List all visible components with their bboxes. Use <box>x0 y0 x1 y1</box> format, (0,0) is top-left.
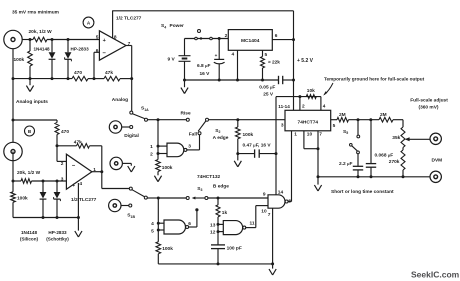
svg-text:7: 7 <box>128 41 131 47</box>
svg-text:1: 1 <box>150 144 153 150</box>
svg-text:2M: 2M <box>339 112 346 118</box>
svg-text:≈ 22k: ≈ 22k <box>268 60 280 66</box>
svg-text:Digital: Digital <box>124 133 139 139</box>
svg-text:2: 2 <box>302 104 305 110</box>
svg-text:1N4148: 1N4148 <box>34 47 51 52</box>
svg-text:3: 3 <box>188 143 191 149</box>
svg-text:7: 7 <box>319 131 322 137</box>
svg-text:2: 2 <box>61 161 64 167</box>
svg-text:(360 mV): (360 mV) <box>419 104 439 110</box>
svg-text:4: 4 <box>79 181 82 187</box>
svg-text:5: 5 <box>333 123 336 129</box>
svg-text:MC1404: MC1404 <box>241 38 260 44</box>
svg-text:HP-2833: HP-2833 <box>71 47 90 52</box>
svg-text:HP-2833: HP-2833 <box>48 230 67 235</box>
svg-text:5: 5 <box>151 229 154 235</box>
svg-text:0.05 μF: 0.05 μF <box>259 85 275 91</box>
svg-text:Rise: Rise <box>181 111 191 117</box>
svg-text:9 V: 9 V <box>168 57 176 63</box>
svg-text:2M: 2M <box>380 112 387 118</box>
svg-text:8: 8 <box>288 199 291 205</box>
svg-text:100 pF: 100 pF <box>227 246 242 252</box>
svg-text:7: 7 <box>268 212 271 218</box>
svg-text:6.8 μF: 6.8 μF <box>197 63 210 69</box>
svg-text:47k: 47k <box>74 140 82 146</box>
svg-text:Analog inputs: Analog inputs <box>16 99 48 105</box>
svg-text:4: 4 <box>232 52 235 58</box>
svg-text:Analog: Analog <box>112 97 128 103</box>
svg-text:35k: 35k <box>392 135 400 141</box>
svg-text:1k: 1k <box>222 210 228 216</box>
svg-text:9: 9 <box>263 192 266 198</box>
svg-text:74HCT132: 74HCT132 <box>197 174 221 180</box>
svg-text:(Schottky): (Schottky) <box>46 237 69 242</box>
svg-text:4: 4 <box>151 221 154 227</box>
svg-text:470: 470 <box>74 70 82 76</box>
svg-text:0.47 μF, 16 V: 0.47 μF, 16 V <box>243 142 272 148</box>
svg-text:Temporarily ground here for fu: Temporarily ground here for full-scale o… <box>324 77 425 82</box>
svg-text:35 mV rms minimum: 35 mV rms minimum <box>12 10 59 16</box>
svg-text:14: 14 <box>278 190 284 196</box>
svg-text:6: 6 <box>188 221 191 227</box>
svg-text:5: 5 <box>265 52 268 58</box>
svg-text:20k, 1/2 W: 20k, 1/2 W <box>29 29 53 35</box>
svg-text:2.2 μF: 2.2 μF <box>339 161 352 167</box>
svg-text:A edge: A edge <box>213 135 229 141</box>
svg-text:470: 470 <box>61 129 69 135</box>
svg-text:1/2 TLC277: 1/2 TLC277 <box>116 16 142 22</box>
svg-text:+: + <box>72 183 75 189</box>
svg-text:1N4148: 1N4148 <box>21 230 38 235</box>
svg-text:(Silicon): (Silicon) <box>20 237 39 242</box>
svg-text:6: 6 <box>96 48 99 54</box>
svg-text:2: 2 <box>150 152 153 158</box>
svg-text:B edge: B edge <box>213 183 229 189</box>
svg-text:SeekIC.com: SeekIC.com <box>411 270 460 280</box>
svg-text:100k: 100k <box>14 57 25 63</box>
svg-text:10k: 10k <box>307 88 315 94</box>
svg-text:10: 10 <box>307 131 313 137</box>
svg-text:1/2 TLC277: 1/2 TLC277 <box>71 197 97 203</box>
svg-text:16 V: 16 V <box>200 71 211 77</box>
svg-text:2: 2 <box>225 33 228 39</box>
svg-text:12: 12 <box>210 230 216 236</box>
svg-text:25 V: 25 V <box>263 92 274 98</box>
svg-text:Short or long time constant: Short or long time constant <box>331 189 394 195</box>
svg-text:5: 5 <box>96 34 99 40</box>
svg-text:6: 6 <box>275 33 278 39</box>
svg-text:4: 4 <box>323 104 326 110</box>
svg-text:100k: 100k <box>17 195 28 201</box>
svg-text:0.068 μF: 0.068 μF <box>375 152 394 158</box>
svg-text:+ 5.2 V: + 5.2 V <box>297 58 314 64</box>
svg-text:1: 1 <box>294 131 297 137</box>
svg-text:74HCT74: 74HCT74 <box>298 119 319 125</box>
svg-text:Full-scale adjust: Full-scale adjust <box>410 98 448 104</box>
svg-text:10: 10 <box>261 208 267 214</box>
svg-text:100k: 100k <box>162 165 173 171</box>
svg-text:13: 13 <box>210 222 216 228</box>
svg-text:8: 8 <box>114 34 117 40</box>
svg-text:3: 3 <box>61 176 64 182</box>
svg-text:Power: Power <box>170 23 185 29</box>
svg-text:47k: 47k <box>105 70 113 76</box>
svg-text:Fall: Fall <box>189 131 197 137</box>
svg-text:DVM: DVM <box>432 157 443 163</box>
svg-text:100k: 100k <box>243 132 254 138</box>
svg-text:+: + <box>103 38 106 44</box>
svg-text:+: + <box>215 53 218 58</box>
svg-text:20k, 1/2 W: 20k, 1/2 W <box>17 170 41 176</box>
svg-text:3: 3 <box>281 123 284 129</box>
svg-text:100k: 100k <box>162 246 173 252</box>
svg-text:11: 11 <box>250 220 255 226</box>
svg-text:270k: 270k <box>389 159 400 165</box>
svg-text:11-14: 11-14 <box>278 104 290 109</box>
